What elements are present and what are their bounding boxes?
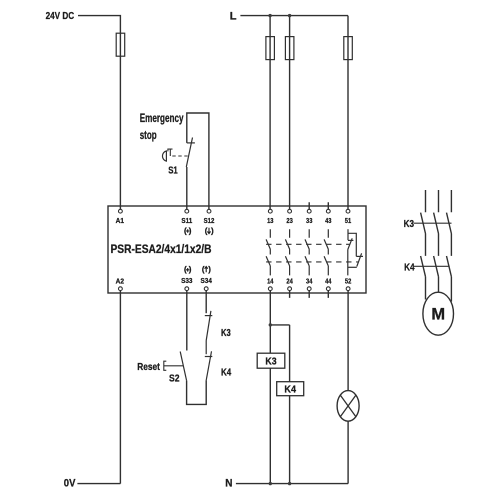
svg-text:51: 51: [345, 216, 351, 225]
svg-text:13: 13: [267, 216, 273, 225]
svg-text:(: (: [205, 226, 208, 235]
svg-text:24V DC: 24V DC: [46, 10, 75, 22]
svg-text:33: 33: [306, 216, 312, 225]
svg-text:S33: S33: [181, 276, 192, 285]
svg-text:M: M: [431, 306, 445, 324]
svg-text:0V: 0V: [64, 478, 76, 490]
svg-text:34: 34: [306, 277, 313, 286]
svg-text:A1: A1: [116, 216, 124, 225]
svg-text:S1: S1: [168, 164, 178, 176]
svg-text:Emergency: Emergency: [140, 113, 184, 125]
svg-text:): ): [211, 226, 214, 235]
svg-text:): ): [208, 265, 211, 274]
svg-text:24: 24: [286, 277, 293, 286]
svg-text:14: 14: [267, 277, 274, 286]
svg-text:43: 43: [325, 216, 331, 225]
svg-text:(: (: [202, 265, 205, 274]
svg-text:K4: K4: [284, 384, 296, 396]
svg-text:S12: S12: [204, 216, 215, 225]
svg-text:K4: K4: [221, 367, 231, 379]
svg-text:A2: A2: [116, 277, 124, 286]
svg-text:N: N: [225, 478, 232, 490]
svg-text:stop: stop: [140, 130, 157, 142]
svg-text:PSR-ESA2/4x1/1x2/B: PSR-ESA2/4x1/1x2/B: [111, 242, 212, 256]
svg-text:S11: S11: [181, 216, 192, 225]
svg-text:S2: S2: [169, 373, 180, 385]
svg-text:K3: K3: [221, 327, 231, 339]
svg-text:Reset: Reset: [137, 361, 160, 373]
svg-text:S34: S34: [201, 276, 213, 285]
svg-text:52: 52: [345, 277, 351, 286]
svg-text:44: 44: [325, 277, 332, 286]
svg-text:L: L: [230, 11, 237, 23]
svg-text:23: 23: [286, 216, 292, 225]
svg-text:K4: K4: [404, 261, 415, 273]
svg-text:K3: K3: [265, 356, 276, 368]
svg-text:K3: K3: [404, 218, 415, 230]
